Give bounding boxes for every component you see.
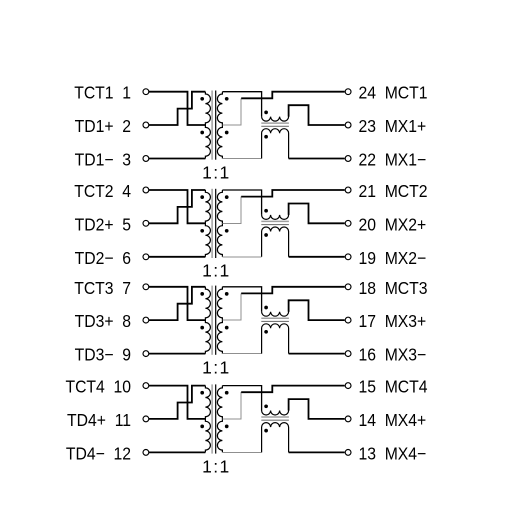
pin 22 terminal circle: [345, 156, 351, 162]
wire T3 secondary center tap (gray): [222, 293, 241, 320]
svg-text:21 MCT2: 21 MCT2: [358, 181, 427, 201]
pin 6 terminal circle: [143, 254, 149, 260]
choke L4 dot winding B: [264, 429, 268, 433]
transformer T4 core line (gray): [211, 384, 213, 453]
wire choke L1 winding B to pin 22 (MX1-): [289, 158, 345, 160]
choke L4 dot winding A: [264, 404, 268, 408]
svg-text:1:1: 1:1: [202, 358, 231, 378]
wire choke L1 winding A to pin 23 (MX1+): [289, 105, 345, 125]
wire T1 secondary bottom to choke L1 winding B (gray): [222, 158, 261, 160]
pin 1 terminal circle: [143, 89, 149, 95]
choke L3 dot winding B: [264, 330, 268, 334]
transformer T3 primary winding: [205, 287, 210, 354]
transformer T4 primary winding: [205, 386, 210, 453]
transformer T1 secondary dot (top): [225, 97, 229, 101]
transformer T4 secondary dot (bottom): [225, 425, 229, 429]
choke L4 core line (gray): [261, 416, 289, 418]
wire T4 secondary center tap (gray): [222, 392, 241, 419]
choke L3 winding A (top): [262, 300, 289, 316]
wire pin 6 (TD2-) to T2 primary bottom: [149, 256, 206, 258]
pin 15 terminal circle: [345, 383, 351, 389]
choke L1 winding A (top): [262, 105, 289, 121]
wire T4 secondary top to choke L4 winding A: [222, 386, 261, 411]
transformer T3 core line (gray): [211, 286, 213, 355]
transformer T1 primary dot (top): [200, 97, 204, 101]
transformer T2 primary dot (bottom): [200, 229, 204, 233]
svg-text:1:1: 1:1: [202, 261, 231, 281]
pin 9 terminal circle: [143, 351, 149, 357]
pin 10 terminal circle: [143, 383, 149, 389]
wire T4 secondary bottom to choke L4 winding B (gray): [222, 451, 261, 453]
wire pin 12 (TD4-) to T4 primary bottom: [149, 451, 206, 453]
wire T2 secondary center tap to pin 21 (MCT2): [241, 190, 345, 197]
transformer T4 core line (black): [215, 384, 217, 453]
choke L3 dot winding A: [264, 306, 268, 310]
pin 16 terminal circle: [345, 351, 351, 357]
svg-text:TD4+ 11: TD4+ 11: [67, 410, 131, 430]
wire choke L4 winding A to pin 14 (MX4+): [289, 399, 345, 419]
choke L2 dot winding A: [264, 209, 268, 213]
wire pin 2 (TD1+) to T1 primary top: [149, 92, 206, 125]
transformer T2 secondary dot (bottom): [225, 229, 229, 233]
svg-text:20 MX2+: 20 MX2+: [358, 215, 426, 235]
transformer T1 secondary winding: [217, 92, 222, 159]
wire choke L3 winding B to pin 16 (MX3-): [289, 353, 345, 355]
pin 21 terminal circle: [345, 187, 351, 193]
wire choke L2 winding B to pin 19 (MX2-): [289, 256, 345, 258]
svg-text:TCT3 7: TCT3 7: [74, 278, 131, 298]
svg-text:24 MCT1: 24 MCT1: [358, 83, 427, 103]
choke L4 winding A (top): [262, 399, 289, 415]
svg-text:TD1+ 2: TD1+ 2: [75, 116, 131, 136]
wire T4 secondary center tap to pin 15 (MCT4): [241, 386, 345, 393]
wire pin 8 (TD3+) to T3 primary top: [149, 287, 206, 320]
pin 11 terminal circle: [143, 416, 149, 422]
pin 8 terminal circle: [143, 317, 149, 323]
transformer T2 primary dot (top): [200, 195, 204, 199]
svg-text:1:1: 1:1: [202, 456, 231, 476]
choke L4 winding B (bottom): [262, 423, 289, 453]
wire pin 5 (TD2+) to T2 primary top: [149, 190, 206, 223]
choke L1 core line (gray): [261, 122, 289, 124]
choke L4 core line (dark): [261, 419, 289, 421]
pin 7 terminal circle: [143, 284, 149, 290]
wire choke L2 winding A to pin 20 (MX2+): [289, 204, 345, 224]
transformer T4 primary dot (top): [200, 391, 204, 395]
transformer T3 secondary dot (top): [225, 292, 229, 296]
wire pin 11 (TD4+) to T4 primary top: [149, 386, 206, 419]
pin 4 terminal circle: [143, 187, 149, 193]
wire choke L4 winding B to pin 13 (MX4-): [289, 451, 345, 453]
pin 19 terminal circle: [345, 254, 351, 260]
transformer T4 secondary winding: [217, 386, 222, 453]
choke L2 core line (gray): [261, 220, 289, 222]
svg-text:16 MX3−: 16 MX3−: [358, 345, 426, 365]
wire T1 secondary center tap (gray): [222, 98, 241, 125]
transformer T2 secondary winding: [217, 190, 222, 257]
svg-text:TD3+ 8: TD3+ 8: [75, 311, 131, 331]
wire T2 secondary bottom to choke L2 winding B (gray): [222, 256, 261, 258]
svg-text:TD2+ 5: TD2+ 5: [75, 215, 131, 235]
svg-text:TCT4 10: TCT4 10: [65, 377, 131, 397]
choke L3 core line (gray): [261, 317, 289, 319]
pin 18 terminal circle: [345, 284, 351, 290]
pin 5 terminal circle: [143, 220, 149, 226]
transformer T1 core line (gray): [211, 91, 213, 160]
wire T3 secondary bottom to choke L3 winding B (gray): [222, 353, 261, 355]
choke L1 dot winding B: [264, 135, 268, 139]
svg-text:15 MCT4: 15 MCT4: [358, 377, 427, 397]
transformer T2 primary winding: [205, 190, 210, 257]
wire pin 3 (TD1-) to T1 primary bottom: [149, 158, 206, 160]
svg-text:TD2− 6: TD2− 6: [75, 248, 131, 268]
svg-text:TD1− 3: TD1− 3: [75, 150, 131, 170]
pin 2 terminal circle: [143, 122, 149, 128]
wire T2 secondary center tap (gray): [222, 197, 241, 224]
transformer T1 core line (black): [215, 91, 217, 160]
svg-text:14 MX4+: 14 MX4+: [358, 410, 426, 430]
svg-text:TD3− 9: TD3− 9: [75, 345, 131, 365]
svg-text:13 MX4−: 13 MX4−: [358, 444, 426, 464]
transformer T2 core line (gray): [211, 189, 213, 258]
wire T3 secondary center tap to pin 18 (MCT3): [241, 287, 345, 294]
transformer T1 secondary dot (bottom): [225, 131, 229, 135]
choke L1 winding B (bottom): [262, 129, 289, 159]
pin 14 terminal circle: [345, 416, 351, 422]
wire T2 secondary top to choke L2 winding A: [222, 190, 261, 215]
transformer T3 primary dot (bottom): [200, 326, 204, 330]
svg-text:TCT1 1: TCT1 1: [74, 83, 131, 103]
choke L2 winding B (bottom): [262, 227, 289, 257]
wire T1 secondary center tap to pin 24 (MCT1): [241, 92, 345, 99]
wire pin 1 (TCT1) to T1 primary center tap: [149, 92, 206, 125]
svg-text:23 MX1+: 23 MX1+: [358, 116, 426, 136]
wire T1 secondary top to choke L1 winding A: [222, 92, 261, 117]
svg-text:18 MCT3: 18 MCT3: [358, 278, 427, 298]
choke L1 dot winding A: [264, 111, 268, 115]
svg-text:17 MX3+: 17 MX3+: [358, 311, 426, 331]
transformer T1 primary winding: [205, 92, 210, 159]
pin 23 terminal circle: [345, 122, 351, 128]
pin 13 terminal circle: [345, 450, 351, 456]
wire choke L3 winding A to pin 17 (MX3+): [289, 300, 345, 320]
wire pin 10 (TCT4) to T4 primary center tap: [149, 386, 206, 419]
transformer T1 primary dot (bottom): [200, 131, 204, 135]
transformer T3 core line (black): [215, 286, 217, 355]
pin 20 terminal circle: [345, 220, 351, 226]
choke L2 core line (dark): [261, 224, 289, 226]
choke L2 dot winding B: [264, 233, 268, 237]
wire T3 secondary top to choke L3 winding A: [222, 287, 261, 312]
transformer T4 secondary dot (top): [225, 391, 229, 395]
choke L2 winding A (top): [262, 204, 289, 220]
svg-text:19 MX2−: 19 MX2−: [358, 248, 426, 268]
choke L1 core line (dark): [261, 125, 289, 127]
transformer T3 secondary winding: [217, 287, 222, 354]
svg-text:22 MX1−: 22 MX1−: [358, 150, 426, 170]
transformer T4 primary dot (bottom): [200, 425, 204, 429]
transformer T2 secondary dot (top): [225, 195, 229, 199]
wire pin 4 (TCT2) to T2 primary center tap: [149, 190, 206, 223]
pin 17 terminal circle: [345, 317, 351, 323]
svg-text:1:1: 1:1: [202, 162, 231, 182]
choke L3 core line (dark): [261, 320, 289, 322]
wire pin 7 (TCT3) to T3 primary center tap: [149, 287, 206, 320]
pin 12 terminal circle: [143, 450, 149, 456]
pin 3 terminal circle: [143, 156, 149, 162]
wire pin 9 (TD3-) to T3 primary bottom: [149, 353, 206, 355]
transformer T3 secondary dot (bottom): [225, 326, 229, 330]
svg-text:TCT2 4: TCT2 4: [74, 181, 131, 201]
pin 24 terminal circle: [345, 89, 351, 95]
svg-text:TD4− 12: TD4− 12: [66, 444, 131, 464]
choke L3 winding B (bottom): [262, 324, 289, 354]
transformer T3 primary dot (top): [200, 292, 204, 296]
transformer T2 core line (black): [215, 189, 217, 258]
